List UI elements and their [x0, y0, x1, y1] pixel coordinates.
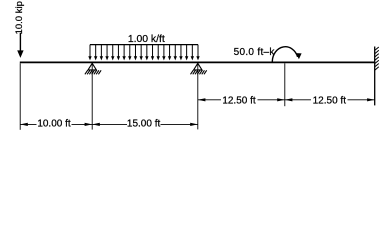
svg-text:10.0 kip: 10.0 kip [14, 1, 25, 34]
moment M1 arc [272, 47, 297, 62]
extension line at left end [19, 63, 21, 130]
fixed support wall line [374, 47, 376, 106]
extension line at support B [197, 63, 199, 129]
fixed support wall hatching [375, 47, 379, 70]
dimension 12.50 ft left arrows [198, 98, 206, 101]
dimension 10.00 ft arrows [20, 123, 28, 126]
moment M1 arrowhead [296, 53, 302, 59]
distributed load W1 top line [90, 44, 198, 46]
dimension 12.50 ft left line [198, 99, 285, 101]
dimension 15.00 ft arrows [92, 123, 100, 126]
svg-text:10.00 ft: 10.00 ft [37, 119, 71, 130]
dimension 12.50 ft right arrows [285, 98, 293, 101]
extension line at support A [91, 63, 93, 129]
pin support B hatching [191, 70, 194, 74]
dimension 10.00 ft line [20, 123, 92, 125]
svg-text:1.00 k/ft: 1.00 k/ft [128, 34, 165, 45]
svg-text:12.50 ft: 12.50 ft [313, 95, 347, 106]
dimension 15.00 ft line [92, 123, 198, 125]
svg-text:50.0 ft–k: 50.0 ft–k [234, 47, 276, 58]
pin support A hatching [85, 70, 88, 74]
svg-text:12.50 ft: 12.50 ft [222, 95, 256, 106]
pin support B triangle [191, 63, 207, 74]
distributed load W1 arrows [88, 45, 199, 61]
extension line at moment point [284, 63, 286, 106]
beam [20, 61, 375, 63]
point load P1 arrow [17, 33, 23, 58]
svg-text:15.00 ft: 15.00 ft [127, 119, 161, 130]
dimension 12.50 ft right line [285, 99, 375, 101]
pin support A triangle [85, 63, 101, 74]
